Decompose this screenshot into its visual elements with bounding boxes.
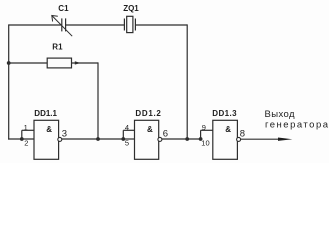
wire DD1.1 input pin1 <box>22 129 34 131</box>
svg-text:&: & <box>225 125 231 134</box>
wire DD1.3 input pin9 <box>201 129 213 131</box>
gate DD1.2 output bubble <box>158 137 162 141</box>
svg-text:10: 10 <box>201 139 209 148</box>
svg-text:DD1.1: DD1.1 <box>34 109 57 118</box>
wire R1 feedback drop <box>97 62 99 139</box>
gate DD1.2 body <box>135 120 159 159</box>
wire R1 right <box>72 62 99 64</box>
wire DD1.3 input tie vertical <box>200 130 202 139</box>
capacitor C1 adjustment arrow <box>52 16 72 37</box>
wire DD1.2 input tie vertical <box>122 130 124 139</box>
svg-text:4: 4 <box>125 123 129 132</box>
arrow mark on R1 right wire <box>75 61 81 64</box>
crystal ZQ1 body <box>127 16 133 32</box>
svg-text:DD1.3: DD1.3 <box>212 109 237 118</box>
wire right feedback rail vertical <box>186 24 188 139</box>
wire DD1.1 input tie vertical <box>21 130 23 139</box>
junction dot feedback rail to signal net <box>185 137 189 141</box>
wire top rail left segment <box>9 24 62 26</box>
gate DD1.3 output bubble <box>237 137 241 141</box>
svg-text:&: & <box>46 125 52 134</box>
wire DD1.2 input pin4 <box>123 129 134 131</box>
svg-text:8: 8 <box>240 129 245 140</box>
svg-text:DD1.2: DD1.2 <box>135 109 161 118</box>
output arrowhead <box>278 138 292 141</box>
svg-text:1: 1 <box>24 123 28 132</box>
wire top rail right segment <box>135 24 187 26</box>
svg-text:генератора: генератора <box>265 120 329 131</box>
junction dot DD1.2 inputs <box>121 137 125 141</box>
resistor R1 body <box>47 58 71 68</box>
wire DD1.2 input pin5 <box>123 138 134 140</box>
svg-text:&: & <box>147 125 153 134</box>
svg-text:5: 5 <box>125 139 129 148</box>
svg-text:6: 6 <box>163 129 168 140</box>
junction dot R1 to gate output net <box>96 137 100 141</box>
wire R1 left <box>9 62 48 64</box>
wire DD1.2 output to DD1.3 <box>162 138 201 140</box>
gate DD1.3 body <box>213 120 238 159</box>
wire DD1.1 input pin2 <box>8 138 34 140</box>
wire top rail middle segment <box>66 24 125 26</box>
svg-text:R1: R1 <box>52 42 63 51</box>
svg-text:ZQ1: ZQ1 <box>123 4 139 13</box>
svg-text:2: 2 <box>24 139 28 148</box>
svg-text:3: 3 <box>62 129 67 140</box>
capacitor C1 (variable) plates <box>62 18 66 31</box>
gate DD1.1 body <box>34 120 59 159</box>
junction dot DD1.3 inputs <box>199 137 203 141</box>
wire left rail vertical <box>8 24 10 139</box>
svg-text:C1: C1 <box>58 4 69 13</box>
node A junction dot on left rail <box>7 61 11 65</box>
svg-text:9: 9 <box>202 123 206 132</box>
wire generator output <box>241 138 281 140</box>
wire DD1.1 output to DD1.2 <box>62 138 123 140</box>
crystal ZQ1 plates <box>124 19 135 31</box>
svg-text:Выход: Выход <box>265 109 295 120</box>
gate DD1.1 output bubble <box>58 137 62 141</box>
junction dot DD1.1 inputs <box>20 137 24 141</box>
